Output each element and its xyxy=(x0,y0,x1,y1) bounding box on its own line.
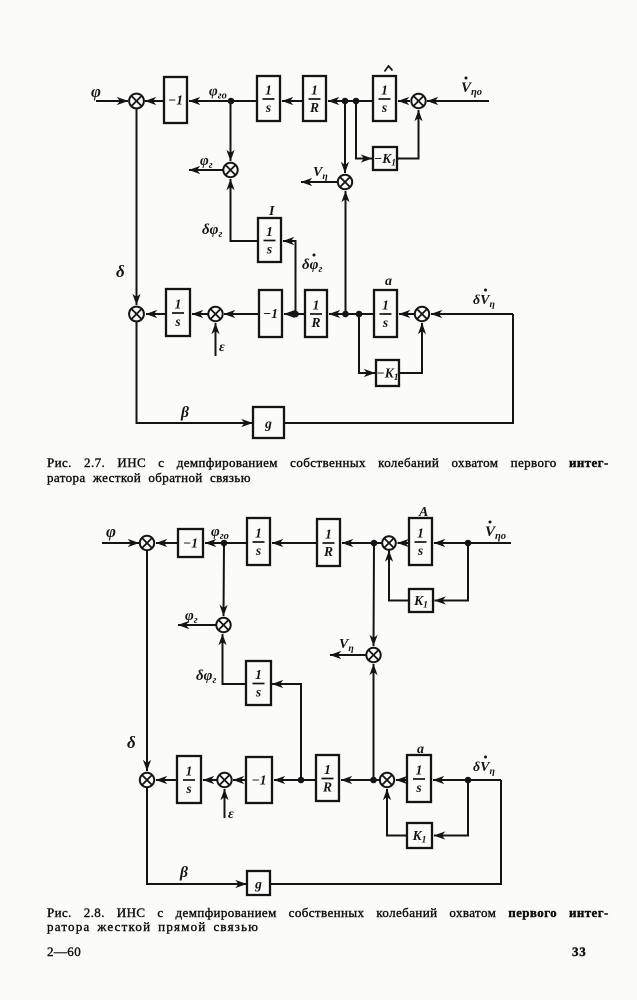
svg-text:s: s xyxy=(265,100,271,115)
svg-text:φ: φ xyxy=(106,522,116,541)
wire row2: block -1 output to summator S6b xyxy=(233,779,246,781)
wire phi input into summator S1 xyxy=(96,100,128,102)
block 1/s integrator a (row2 d2) xyxy=(407,755,431,802)
svg-text:s: s xyxy=(382,315,388,330)
node tap to -K1 top xyxy=(353,98,360,105)
wire node phi_go down to summator S4 xyxy=(230,101,232,161)
block 1/s integrator (middle d2) xyxy=(246,661,271,705)
block 1/s (top row) xyxy=(257,76,280,121)
node delta-phidot-g tap row2 xyxy=(292,311,299,318)
svg-text:a: a xyxy=(385,274,392,289)
svg-text:1: 1 xyxy=(255,526,262,541)
label A (clipped) above integrator xyxy=(385,66,393,72)
wire Vdot_eta0 input to summator S2 xyxy=(427,100,489,102)
block g (gravity) d2 xyxy=(247,871,270,895)
wire bottom -K1 output up to summator S7 xyxy=(399,323,422,373)
svg-text:2—60: 2—60 xyxy=(47,944,81,959)
block g (gravity) xyxy=(253,407,284,438)
summator S6 (epsilon) xyxy=(208,307,222,321)
svg-text:−1: −1 xyxy=(168,92,183,107)
wire integrator A output to summator S2b xyxy=(398,542,410,544)
summator S7b (row2 right) xyxy=(380,773,394,787)
svg-text:1: 1 xyxy=(325,527,332,542)
wire integrator 1/s output to node phi_go xyxy=(222,542,247,544)
wire row2 node up to summator S3 xyxy=(345,191,347,314)
wire node down to block K1 input (top) xyxy=(435,543,469,601)
svg-text:δ: δ xyxy=(116,262,125,281)
svg-text:g: g xyxy=(264,416,272,431)
wire integrator 1/s output to node phi_go xyxy=(229,100,257,102)
svg-text:R: R xyxy=(322,780,332,795)
svg-text:1: 1 xyxy=(265,83,272,98)
wire epsilon input stub into summator S6b xyxy=(224,789,226,818)
svg-text:R: R xyxy=(323,544,333,559)
wire row2: integrator 1/s output to summator S5 xyxy=(146,313,166,315)
block -1 (row2) xyxy=(259,290,282,337)
svg-text:1: 1 xyxy=(417,526,424,541)
svg-text:1: 1 xyxy=(186,764,193,779)
wire node phi_go down to summator S4b xyxy=(223,543,226,616)
wire summator S4 output arrow phi_g xyxy=(189,169,223,171)
wire node down to summator S3b (V_eta) xyxy=(373,543,376,646)
wire delta-phidot-g tap up into integrator input xyxy=(272,684,301,780)
wire row2 node down to block -K1 input (bottom) xyxy=(359,314,375,373)
svg-text:33: 33 xyxy=(572,944,587,959)
svg-text:−1: −1 xyxy=(183,535,198,550)
summator S3 (V_eta) xyxy=(338,175,352,189)
wire row2: summator S7 output to integrator a input xyxy=(399,313,415,315)
wire bottom K1 output up to summator S7b xyxy=(387,789,407,836)
svg-text:φ: φ xyxy=(91,82,101,101)
node tap to S3b xyxy=(371,540,378,547)
wire block -K1 output up to summator S2 xyxy=(397,110,419,159)
svg-text:a: a xyxy=(417,742,424,757)
block 1/s integrator A d2 xyxy=(409,518,432,565)
svg-text:s: s xyxy=(415,780,421,795)
svg-text:I: I xyxy=(268,204,275,219)
wire S1 output down to summator S5 (delta) xyxy=(136,108,138,305)
block -1 (top row) xyxy=(164,77,187,123)
wire summator S4b output arrow phi_g xyxy=(178,624,216,626)
wire delta-Vdot-eta input to summator S7 xyxy=(431,313,513,315)
summator S1b (phi - phi_go) xyxy=(140,536,154,550)
block 1/s (top row d2) xyxy=(247,518,270,565)
wire row2: block 1/R output to block -1 input xyxy=(274,779,316,781)
wire summator S2 output to integrator A input xyxy=(398,100,410,102)
wire block 1/R output to integrator 1/s input xyxy=(272,542,317,544)
wire row2 node up to summator S3b xyxy=(373,664,375,780)
wire integrator A output to block 1/R input xyxy=(328,100,373,102)
block -K1 (top feedback) xyxy=(373,147,397,170)
block 1/R (top row d2) xyxy=(317,519,340,566)
wire row2 node down to block K1 input (bottom) xyxy=(434,780,468,836)
svg-text:1: 1 xyxy=(324,762,331,777)
svg-text:1: 1 xyxy=(381,83,388,98)
wire phi input into summator S1b xyxy=(102,542,139,544)
svg-text:Рис. 2.8. ИНС с демпфированием: Рис. 2.8. ИНС с демпфированием собственн… xyxy=(47,905,609,920)
svg-text:s: s xyxy=(255,685,261,700)
svg-text:ε: ε xyxy=(228,807,234,822)
node phi_go junction d2 xyxy=(221,540,228,547)
wire row2: integrator 1/s output to summator S5b xyxy=(156,779,177,781)
summator S2b (top right) xyxy=(382,536,396,550)
wire block g output right and up to delta-Vdot-eta line xyxy=(284,314,513,423)
summator S5b (delta) xyxy=(140,773,154,787)
svg-text:ратора жесткой обратной связью: ратора жесткой обратной связью xyxy=(47,470,251,485)
wire block -1 output to summator S1b xyxy=(156,542,178,544)
wire block g output right and up to delta-Vdot-eta line xyxy=(270,780,501,884)
wire row2: summator S6b output to integrator 1/s xyxy=(203,779,217,781)
summator S5 (delta) xyxy=(129,307,144,322)
svg-text:ε: ε xyxy=(219,340,225,355)
wire beta feedback: S5b down, right into block g xyxy=(147,787,247,884)
summator S1 (phi - phi_go) xyxy=(129,94,144,109)
svg-text:A: A xyxy=(418,505,428,520)
svg-text:ратора жесткой прямой связью: ратора жесткой прямой связью xyxy=(47,919,259,934)
svg-text:1: 1 xyxy=(175,297,182,312)
wire delta-Vdot-eta input line to integrator a xyxy=(433,779,501,781)
summator S2 (top right) xyxy=(411,94,425,108)
wire row2: block -1 output to summator S6 xyxy=(224,313,259,315)
wire row2: integrator a output to summator S7b xyxy=(396,779,407,781)
svg-text:g: g xyxy=(254,876,262,891)
summator S6b (epsilon) xyxy=(217,773,231,787)
svg-text:s: s xyxy=(266,242,272,257)
block 1/R (row2) xyxy=(305,290,327,337)
wire block 1/R output to integrator 1/s input xyxy=(282,100,303,102)
block 1/s integrator a (row2) xyxy=(374,290,397,337)
svg-text:β: β xyxy=(179,864,188,881)
node tap to S3 xyxy=(342,98,349,105)
wire epsilon input stub into summator S6 xyxy=(215,323,217,356)
block 1/R (top row) xyxy=(303,76,326,121)
wire node phi_go to block -1 input xyxy=(205,542,224,544)
wire block -1 output to summator S1 xyxy=(145,100,164,102)
svg-text:s: s xyxy=(174,314,180,329)
summator S4b (phi_g) xyxy=(216,618,230,632)
summator S4 (phi_g) xyxy=(223,163,237,177)
svg-text:1: 1 xyxy=(416,763,423,778)
node row2 tap up to S3b xyxy=(370,777,377,784)
block 1/s integrator A (top right) xyxy=(373,76,396,121)
svg-text:−1: −1 xyxy=(263,306,278,321)
wire row2: block 1/R output to block -1 input xyxy=(284,313,305,315)
node delta-phidot-g tap row2 d2 xyxy=(298,777,305,784)
svg-text:δ: δ xyxy=(127,733,136,752)
wire node phi_go to block -1 input xyxy=(189,100,231,102)
wire S1b output down to summator S5b xyxy=(146,550,148,771)
wire summator S2b output to block 1/R input xyxy=(342,542,382,544)
wire node to block -K1 input (top) xyxy=(356,101,372,159)
svg-text:s: s xyxy=(255,543,261,558)
block 1/s (row2 left) xyxy=(166,289,190,336)
wire block K1 output up to summator S2b xyxy=(389,551,409,601)
wire summator S3b output arrow V_eta xyxy=(330,654,366,656)
wire row2: summator S7b output to block 1/R input xyxy=(341,779,380,781)
svg-text:R: R xyxy=(309,100,319,115)
svg-text:s: s xyxy=(417,543,423,558)
wire row2: summator S6 output to integrator 1/s xyxy=(192,313,208,315)
wire beta feedback: S5 down, right into block g xyxy=(137,321,253,423)
block 1/s (row2 left d2) xyxy=(177,756,201,803)
wire node down to summator S3 (V_eta) xyxy=(344,101,346,173)
svg-text:Рис. 2.7. ИНС с демпфированием: Рис. 2.7. ИНС с демпфированием собственн… xyxy=(47,455,609,470)
svg-text:1: 1 xyxy=(313,298,320,313)
wire integrator 1/s output up to summator S4b xyxy=(223,634,247,684)
block -1 (row2 d2) xyxy=(246,757,272,803)
block -1 (top row d2) xyxy=(178,529,203,557)
node row2 tap to K1 bottom xyxy=(465,777,472,784)
block 1/R (row2 d2) xyxy=(316,755,339,801)
svg-text:1: 1 xyxy=(266,224,273,239)
block K1 (row2 feedforward) xyxy=(407,823,432,848)
node row2 tap up to S3 xyxy=(342,311,349,318)
wire integrator I output up to summator S4 xyxy=(231,179,259,241)
node phi_go junction xyxy=(228,98,235,105)
wire summator S3 output arrow V_eta xyxy=(301,181,338,183)
summator S3b (V_eta) xyxy=(366,648,380,662)
svg-text:−1: −1 xyxy=(252,772,267,787)
svg-text:s: s xyxy=(185,781,191,796)
block K1 (top feedforward) xyxy=(409,589,433,612)
svg-text:1: 1 xyxy=(382,298,389,313)
block -K1 (row2 feedback) xyxy=(376,360,399,386)
svg-text:1: 1 xyxy=(311,83,318,98)
wire row2: integrator a output to block 1/R input xyxy=(329,313,374,315)
node Vdot_eta0 tap to K1 top xyxy=(465,540,472,547)
svg-text:β: β xyxy=(180,404,189,421)
summator S7 (row2 right) xyxy=(415,307,429,321)
node row2 tap to -K1 bottom xyxy=(356,311,363,318)
svg-text:s: s xyxy=(381,100,387,115)
wire delta-phidot-g tap up into integrator I input xyxy=(283,241,296,314)
svg-text:R: R xyxy=(310,315,320,330)
wire Vdot_eta0 input line to integrator A xyxy=(434,542,511,544)
svg-text:1: 1 xyxy=(255,667,262,682)
block 1/s integrator I (middle) xyxy=(258,218,281,262)
